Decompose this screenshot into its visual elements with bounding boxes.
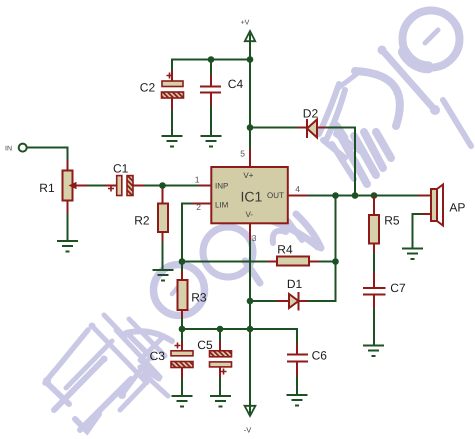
ground C3: [172, 396, 193, 407]
junction C4 top: [208, 56, 215, 63]
label C1: [113, 161, 129, 175]
svg-text:R4: R4: [277, 242, 293, 256]
label C5: [197, 338, 213, 352]
ground AP: [402, 249, 423, 260]
pin number 3: [252, 233, 257, 243]
wire R1 wiper to C1: [87, 185, 117, 187]
resistor R3: [178, 262, 188, 330]
wire C2 to ground: [171, 110, 173, 136]
svg-text:-V: -V: [244, 426, 252, 435]
ground R2: [153, 270, 174, 281]
svg-text:V+: V+: [243, 171, 253, 180]
wire R2 to ground: [162, 242, 164, 270]
resistor R1 (potentiometer): [63, 160, 88, 213]
label C6: [312, 349, 328, 363]
capacitor C2: [162, 70, 184, 110]
capacitor C3: [171, 329, 193, 378]
ground C4: [201, 136, 222, 147]
ground C2: [162, 136, 183, 147]
label D1: [287, 277, 303, 291]
junction OUT/R4: [332, 192, 339, 199]
svg-text:C2: C2: [140, 80, 156, 94]
node IN port: [19, 144, 27, 152]
resistor R4: [277, 257, 309, 266]
label R3: [191, 290, 207, 304]
junction C1/R2/pin1: [159, 182, 166, 189]
wire C4 to ground: [210, 105, 212, 136]
pin number 2: [196, 202, 201, 212]
ground C7: [363, 346, 384, 357]
wire R1 bottom to ground: [67, 213, 69, 241]
wire R5 to C7: [373, 253, 375, 288]
wire +V to D2: [250, 127, 307, 129]
svg-text:2: 2: [196, 202, 201, 212]
wire IC pin 4 OUT rail: [288, 195, 431, 197]
label AP: [449, 200, 465, 214]
wire C5 to ground: [219, 378, 221, 396]
junction R4 right: [332, 258, 339, 265]
junction bottom rail -V: [247, 326, 254, 333]
wire speaker to ground: [413, 214, 432, 248]
label R1: [39, 181, 55, 195]
resistor R5: [369, 196, 379, 254]
power -V symbol: [244, 406, 256, 435]
capacitor C1: [108, 176, 133, 196]
label C2: [140, 80, 156, 94]
label R4: [277, 242, 293, 256]
wire D2 to OUT rail: [326, 128, 355, 196]
capacitor C4: [200, 60, 221, 106]
junction bottom rail C5: [217, 326, 224, 333]
pin number 5: [240, 149, 245, 159]
svg-text:D2: D2: [303, 107, 319, 121]
wire IC pin 2 LIM: [182, 204, 212, 262]
speaker AP: [431, 185, 443, 226]
power +V symbol: [241, 20, 256, 42]
ground R1: [57, 241, 78, 252]
capacitor C5: [210, 329, 232, 378]
resistor R2: [158, 188, 168, 242]
wire top rail to C2 C4: [172, 60, 250, 71]
diode D1: [289, 292, 299, 311]
svg-text:C5: C5: [197, 338, 213, 352]
svg-text:1: 1: [195, 174, 200, 184]
wire C7 to ground: [373, 308, 375, 345]
label R2: [134, 213, 150, 227]
wire C1 to IC pin 1: [133, 185, 212, 187]
wire OUT column to R4 and D1: [335, 196, 337, 302]
junction R4 left: [179, 258, 186, 265]
junction D2 branch: [247, 124, 254, 131]
svg-text:IC1: IC1: [241, 189, 263, 205]
svg-text:R5: R5: [384, 214, 400, 228]
junction D1 branch: [247, 298, 254, 305]
label C7: [390, 281, 406, 295]
ground C6: [287, 395, 308, 406]
svg-text:C1: C1: [113, 161, 129, 175]
svg-text:+V: +V: [241, 20, 250, 27]
diode D2: [307, 119, 326, 138]
svg-text:R2: R2: [134, 213, 150, 227]
junction +V top rail: [247, 56, 254, 63]
junction OUT/R5: [371, 192, 378, 199]
svg-text:C3: C3: [150, 349, 166, 363]
svg-text:4: 4: [295, 184, 300, 194]
op-amp IC1: [211, 167, 287, 223]
wire D1 branch: [250, 262, 336, 302]
svg-text:LIM: LIM: [215, 201, 229, 210]
junction OUT/D2: [352, 192, 359, 199]
pin number 1: [195, 174, 200, 184]
svg-text:AP: AP: [449, 200, 465, 214]
wire C3 to ground: [181, 378, 183, 396]
ground C5: [210, 396, 231, 407]
svg-text:D1: D1: [287, 277, 303, 291]
label C4: [228, 77, 244, 91]
svg-text:V-: V-: [246, 210, 254, 219]
svg-text:OUT: OUT: [267, 191, 284, 200]
wire C6 to ground: [296, 376, 298, 395]
svg-text:3: 3: [252, 233, 257, 243]
capacitor C6: [287, 343, 308, 376]
svg-text:IN: IN: [5, 145, 12, 152]
svg-text:5: 5: [240, 149, 245, 159]
wire R4 rail: [182, 261, 336, 263]
svg-text:INP: INP: [215, 181, 228, 190]
capacitor C7: [363, 288, 386, 308]
pin number 4: [295, 184, 300, 194]
label R5: [384, 214, 400, 228]
svg-text:R3: R3: [191, 290, 207, 304]
wire IC pin 3 V- column: [249, 224, 251, 415]
svg-text:C4: C4: [228, 77, 244, 91]
label C3: [150, 349, 166, 363]
wire +V down to IC pin 5: [249, 34, 251, 168]
svg-text:C6: C6: [312, 349, 328, 363]
label D2: [303, 107, 319, 121]
svg-text:R1: R1: [39, 181, 55, 195]
label IN: [5, 145, 12, 152]
wire bottom rail: [182, 329, 297, 343]
svg-text:C7: C7: [390, 281, 406, 295]
junction bottom rail R3/C3: [179, 326, 186, 333]
wire IN to R1: [27, 148, 68, 161]
